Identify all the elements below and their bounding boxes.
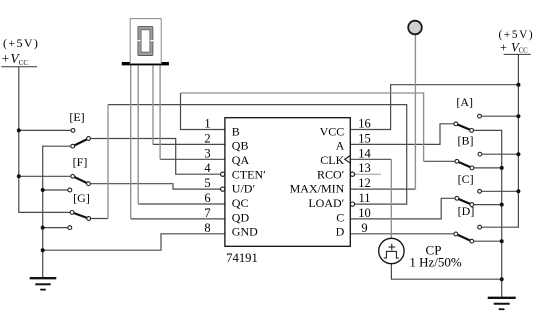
svg-text:QC: QC (232, 196, 249, 210)
svg-text:QA: QA (232, 153, 250, 167)
svg-text:RCO′: RCO′ (317, 167, 345, 181)
svg-text:CLK: CLK (320, 153, 344, 167)
svg-text:[D]: [D] (458, 204, 475, 218)
svg-text:VCC: VCC (320, 124, 345, 138)
svg-text:B: B (232, 124, 240, 138)
svg-text:10: 10 (358, 206, 371, 220)
svg-text:[G]: [G] (73, 191, 90, 205)
svg-text:8: 8 (204, 221, 210, 235)
svg-text:GND: GND (232, 225, 258, 239)
svg-text:MAX/MIN: MAX/MIN (290, 182, 345, 196)
svg-text:1 Hz/50%: 1 Hz/50% (409, 255, 462, 270)
svg-text:12: 12 (358, 176, 371, 190)
svg-text:LOAD′: LOAD′ (308, 196, 344, 210)
svg-text:9: 9 (361, 221, 367, 235)
svg-text:[E]: [E] (69, 110, 84, 124)
svg-text:6: 6 (204, 191, 210, 205)
svg-text:+VCC: +VCC (500, 41, 528, 55)
svg-text:11: 11 (358, 191, 370, 205)
svg-text:74191: 74191 (226, 251, 258, 265)
svg-text:7: 7 (204, 206, 210, 220)
svg-text:CTEN′: CTEN′ (232, 167, 266, 181)
svg-text:(+5V): (+5V) (499, 29, 535, 41)
svg-text:16: 16 (358, 117, 371, 131)
svg-text:QB: QB (232, 139, 249, 153)
svg-text:[C]: [C] (458, 172, 474, 186)
svg-text:C: C (336, 210, 344, 224)
svg-text:[A]: [A] (456, 95, 473, 109)
svg-text:U/D′: U/D′ (232, 182, 256, 196)
svg-text:5: 5 (204, 176, 210, 190)
svg-text:14: 14 (358, 146, 371, 160)
svg-text:D: D (336, 225, 345, 239)
svg-text:13: 13 (358, 161, 371, 175)
svg-text:3: 3 (204, 146, 210, 160)
svg-text:[B]: [B] (458, 134, 474, 148)
svg-text:4: 4 (204, 161, 211, 175)
svg-text:2: 2 (204, 131, 210, 145)
svg-text:[F]: [F] (73, 155, 88, 169)
svg-text:A: A (336, 139, 345, 153)
svg-text:QD: QD (232, 210, 250, 224)
svg-text:+VCC: +VCC (2, 51, 29, 67)
svg-text:15: 15 (358, 131, 371, 145)
svg-text:(+5V): (+5V) (3, 36, 39, 50)
svg-text:1: 1 (204, 117, 210, 131)
